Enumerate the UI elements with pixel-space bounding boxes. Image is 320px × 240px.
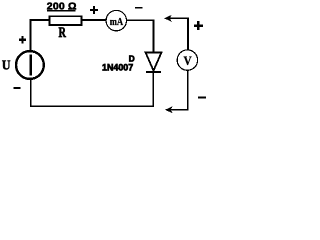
plus sign above source — [19, 36, 26, 43]
arrow head top probe — [164, 15, 172, 22]
underline of 200 Ω — [47, 10, 76, 11]
wire top-left corner from source top to resistor — [31, 20, 51, 51]
minus sign after ammeter — [135, 7, 143, 9]
minus sign right of bottom probe — [198, 97, 206, 99]
source bar — [29, 55, 32, 76]
voltmeter bottom probe wire — [167, 70, 189, 109]
minus sign below source — [13, 87, 20, 89]
voltmeter top probe wire — [166, 18, 188, 51]
wire bottom-left up to source — [30, 80, 32, 108]
svg-text:mA: mA — [110, 16, 123, 28]
ammeter mA — [106, 10, 126, 30]
wire diode to bottom — [152, 71, 154, 107]
bottom wire — [30, 105, 154, 107]
resistor R1 — [50, 16, 82, 25]
wire resistor to mA — [82, 19, 107, 21]
plus sign top right — [194, 21, 203, 30]
voltmeter V — [177, 50, 197, 70]
diode D 1N4007 — [146, 53, 162, 71]
arrow head bottom probe — [165, 106, 173, 113]
voltage source U — [16, 51, 44, 79]
svg-text:R: R — [59, 25, 67, 41]
svg-text:1N4007: 1N4007 — [102, 63, 133, 74]
svg-text:U: U — [2, 58, 11, 73]
wire mA to diode branch corner — [127, 19, 154, 52]
plus sign near ammeter — [90, 6, 98, 14]
svg-text:V: V — [184, 54, 192, 68]
